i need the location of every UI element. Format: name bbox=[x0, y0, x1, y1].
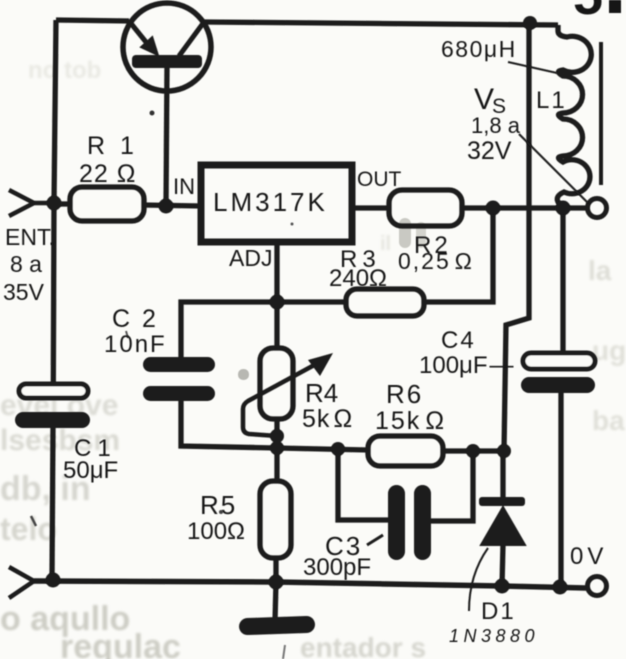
pointer: C3 label tick bbox=[367, 535, 383, 545]
svg-text:entador s: entador s bbox=[300, 632, 426, 659]
svg-text:15k Ω: 15k Ω bbox=[375, 407, 446, 435]
resistor R2 bbox=[389, 190, 462, 226]
svg-text:R6: R6 bbox=[386, 379, 423, 409]
wire: C3 left branch bbox=[338, 449, 389, 520]
node: ENT input bbox=[47, 196, 62, 211]
svg-text:V: V bbox=[474, 83, 494, 116]
annotation pointer lines bbox=[367, 62, 588, 611]
wire: C2 to mid rail bbox=[181, 401, 277, 448]
resistor R3 bbox=[346, 289, 424, 316]
wire: output node down to R3 bbox=[424, 208, 493, 302]
wire: left rail below C1 bbox=[52, 427, 53, 579]
wire: mid rail right of R6 bbox=[443, 448, 504, 453]
node: mid rail C3 left bbox=[331, 442, 345, 456]
svg-text:il: il bbox=[380, 233, 391, 255]
node: output / C4 / L1 bbox=[556, 201, 571, 216]
svg-text:LM317K: LM317K bbox=[213, 187, 328, 217]
svg-text:100Ω: 100Ω bbox=[187, 518, 245, 545]
svg-text:1N3880: 1N3880 bbox=[449, 626, 539, 646]
capacitor C2 top plate bbox=[143, 357, 215, 372]
wire: output node down to C4 bbox=[560, 208, 565, 355]
wire: top rail down to D1 (jogged) bbox=[504, 23, 529, 451]
node: IN/base bbox=[159, 199, 174, 214]
L1 core bar bbox=[599, 42, 603, 185]
svg-text:0,25 Ω: 0,25 Ω bbox=[398, 248, 474, 274]
output terminal 0V circle bbox=[588, 577, 607, 596]
wire: R1 to IN pin bbox=[144, 205, 201, 206]
capacitor C4 top plate bbox=[523, 353, 595, 369]
wire: transistor base to IN node bbox=[166, 67, 167, 206]
svg-text:ENT.: ENT. bbox=[5, 224, 55, 250]
transistor (pass transistor) bbox=[123, 3, 211, 206]
resistor R5 bbox=[260, 449, 291, 582]
inductor L1 bbox=[557, 25, 601, 208]
wire: bottom 0V rail bbox=[34, 581, 586, 588]
wire: ADJ node to R3 bbox=[277, 299, 346, 304]
wire: left input rail bbox=[53, 20, 56, 385]
svg-text:C2: C2 bbox=[112, 305, 168, 333]
regulator U1 LM317K bbox=[201, 165, 352, 242]
wire: C3 right branch bbox=[431, 451, 473, 521]
svg-text:5: 5 bbox=[573, 0, 603, 26]
wire: top rail right segment bbox=[204, 22, 558, 25]
svg-text:22 Ω: 22 Ω bbox=[79, 160, 136, 188]
svg-text:R5: R5 bbox=[200, 490, 237, 520]
svg-text:telo: telo bbox=[0, 511, 57, 547]
capacitor C3 left plate bbox=[388, 485, 405, 560]
pointer: D1 label curve bbox=[469, 548, 488, 611]
ground bbox=[239, 582, 316, 635]
diode D1 bbox=[479, 451, 525, 586]
node: R2 output / R3 bbox=[486, 201, 501, 216]
node: bottom rail left bbox=[46, 573, 61, 588]
svg-text:OUT: OUT bbox=[357, 168, 402, 191]
input terminal ENT arrow (top) bbox=[9, 190, 54, 216]
node: mid rail D1 bbox=[497, 444, 511, 458]
svg-text:5k Ω: 5k Ω bbox=[302, 405, 353, 433]
capacitor C3 right plate bbox=[414, 485, 431, 560]
node: bottom rail D1 bbox=[495, 579, 510, 594]
resistor R1 bbox=[70, 187, 144, 221]
pointer: VS value to output terminal bbox=[519, 134, 588, 203]
svg-text:300pF: 300pF bbox=[303, 554, 371, 581]
svg-text:8 a: 8 a bbox=[10, 251, 42, 277]
svg-text:no tob: no tob bbox=[28, 57, 101, 84]
scan specks and smudges (decorative) bbox=[31, 111, 426, 659]
wire: R2 to output node bbox=[462, 205, 587, 210]
node: R4 bottom bbox=[270, 429, 284, 443]
wire: mid rail left of R6 bbox=[277, 448, 368, 450]
input terminal arrow (bottom) bbox=[9, 567, 34, 598]
svg-text:D1: D1 bbox=[481, 598, 516, 625]
node: bottom rail R5 bbox=[269, 575, 284, 590]
node: top rail / D1 column bbox=[523, 16, 537, 30]
capacitor C2 bottom plate bbox=[143, 386, 215, 401]
node: ADJ bbox=[270, 295, 285, 310]
capacitor C4 bottom plate bbox=[521, 377, 595, 393]
node: mid rail C3 right bbox=[466, 444, 480, 458]
wire: ADJ pin down bbox=[274, 242, 279, 302]
svg-text:R 1: R 1 bbox=[87, 132, 138, 160]
wire: OUT pin to R2 bbox=[352, 205, 389, 210]
capacitor C1 bottom plate bbox=[15, 412, 90, 428]
wire: top rail left segment bbox=[56, 20, 129, 21]
capacitor C1 top plate bbox=[19, 384, 88, 398]
svg-text:IN: IN bbox=[173, 174, 195, 199]
svg-text:35V: 35V bbox=[3, 279, 45, 305]
wire: C4 down to 0V rail bbox=[558, 393, 563, 586]
output terminal VS circle bbox=[588, 199, 607, 218]
svg-text:1,8 a: 1,8 a bbox=[471, 113, 521, 138]
node: mid rail R4/R5 bbox=[270, 441, 284, 455]
svg-text:10nF: 10nF bbox=[104, 331, 167, 358]
svg-text:240Ω: 240Ω bbox=[329, 265, 387, 292]
svg-text:32V: 32V bbox=[467, 137, 512, 165]
resistor R6 bbox=[368, 436, 443, 466]
wire: ENT node to R1 bbox=[54, 201, 70, 206]
svg-text:50μF: 50μF bbox=[63, 457, 118, 484]
svg-text:la: la bbox=[588, 255, 612, 286]
svg-text:requlac: requlac bbox=[60, 628, 181, 659]
R4 wiper arrow bbox=[243, 363, 318, 436]
potentiometer R4 bbox=[243, 302, 333, 449]
svg-text:ba: ba bbox=[592, 405, 625, 436]
svg-text:680μH: 680μH bbox=[441, 36, 517, 62]
svg-text:R4: R4 bbox=[305, 378, 338, 408]
node: bottom rail C4 bbox=[553, 580, 568, 595]
svg-text:C4: C4 bbox=[441, 327, 476, 354]
pointer: 680uH to L1 bbox=[508, 62, 557, 73]
svg-text:0V: 0V bbox=[570, 543, 607, 570]
svg-text:100μF ―: 100μF ― bbox=[419, 352, 514, 379]
svg-text:ADJ: ADJ bbox=[229, 245, 272, 271]
wire: ADJ node left to C2 branch bbox=[181, 302, 277, 357]
svg-text:L1: L1 bbox=[536, 87, 567, 114]
